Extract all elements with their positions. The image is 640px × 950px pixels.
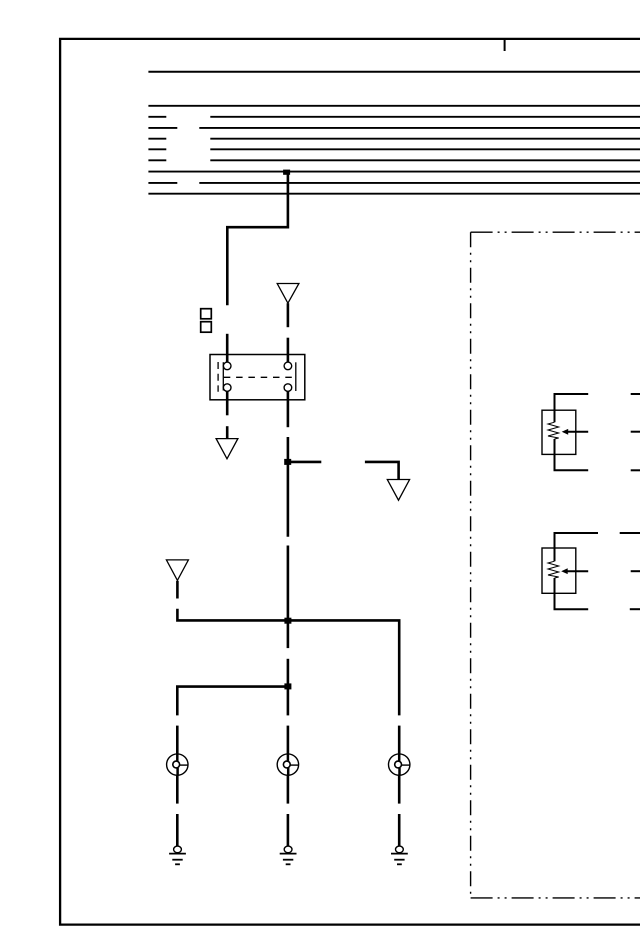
ground G1 [169, 846, 186, 864]
bus wire B8 left stub [148, 182, 177, 184]
branch wire to right (first segment) [288, 461, 321, 464]
connector arrow D (feed from another page) [166, 560, 188, 581]
bus wire B6 [210, 159, 640, 161]
wire segment to ground G1 [176, 814, 179, 846]
unit 2 middle wire right stub [631, 570, 640, 572]
bulb L3 [389, 754, 410, 775]
wire segment into relay right pin [287, 338, 290, 364]
lamp drop 3 upper segment [398, 726, 401, 755]
bus wire B3 [199, 127, 640, 129]
wire below bulb L1 [176, 775, 179, 803]
unit 2 middle wire [566, 570, 589, 572]
junction on rail 2 [284, 683, 291, 689]
unit 2 top wire right stub [620, 532, 640, 534]
wire below bulb L3 [398, 775, 401, 803]
center wire segment to rail 1 [287, 546, 290, 621]
bus wire B2 [210, 116, 640, 118]
wire out of relay left bottom pin [226, 391, 229, 416]
center wire below rail 1 [287, 623, 290, 648]
component group dash-dot boundary [471, 231, 640, 233]
component group boundary left edge [470, 232, 472, 898]
connector terminal box 2 [201, 322, 212, 333]
bus wire B4 left stub [148, 138, 166, 140]
bus wire B0 (single upper feed line) [148, 71, 640, 73]
lamp drop 2 upper segment [287, 726, 290, 755]
relay internal dashed horizontal link [224, 376, 293, 378]
wire from bus junction jogging down-left toward relay [227, 172, 288, 305]
unit 2 resistor zigzag [548, 561, 559, 578]
bus wire B3 left stub [148, 127, 177, 129]
bus wire B1 [148, 105, 640, 107]
unit 1 top wire right stub [631, 393, 640, 395]
bus wire B9 [148, 193, 640, 195]
unit 2 top wire [555, 533, 599, 561]
relay coil bar [295, 362, 297, 391]
branch wire second segment with corner down [365, 462, 399, 479]
wire segment above branch junction [287, 437, 290, 460]
unit 1 resistor zigzag [548, 422, 559, 439]
junction on bus wire B7 [283, 170, 290, 175]
unit 1 wiper arrow [562, 429, 569, 435]
wire segment to ground G2 [287, 814, 290, 846]
unit 1 bottom wire [555, 439, 589, 470]
wire segment to arrow B [226, 426, 229, 439]
bus wire B2 left stub [148, 116, 166, 118]
thermistor unit 1 case [542, 410, 576, 454]
connector arrow B (to another page) [216, 439, 238, 459]
relay internal dashed vertical [217, 362, 219, 392]
bus wire B5 [210, 148, 640, 150]
relay contact bar [222, 362, 224, 390]
bus wire B8 [199, 182, 640, 184]
center wire segment [287, 462, 290, 537]
unit 2 wiper arrow [561, 568, 568, 574]
lamp drop 1 upper segment [176, 726, 179, 755]
bus wire B6 left stub [148, 159, 166, 161]
relay pin circle bottom-left [223, 384, 231, 392]
wire segment to ground G3 [398, 814, 401, 846]
bulb L1 [167, 754, 188, 775]
component group boundary bottom edge [471, 897, 640, 899]
relay pin circle top-right [284, 362, 292, 370]
rail 1 with left upturn and right descent [177, 609, 399, 716]
relay case [210, 355, 305, 400]
bus wire B4 [210, 138, 640, 140]
junction at branch [284, 459, 291, 465]
ground G2 [280, 846, 297, 864]
unit 2 bottom wire [555, 578, 589, 609]
unit 1 middle wire right stub [631, 431, 640, 433]
bulb L2 [277, 754, 298, 775]
unit 1 top wire [555, 394, 589, 422]
junction on rail 1 [284, 618, 291, 624]
connector arrow C (to another page) [387, 480, 409, 501]
wire into relay left pin [226, 334, 229, 364]
unit 2 bottom wire right stub [630, 608, 640, 610]
rail 2 with left descent [177, 687, 288, 716]
relay pin circle bottom-right [284, 384, 292, 392]
wire out of relay right bottom pin [287, 391, 290, 427]
unit 1 bottom wire right stub [631, 469, 640, 471]
bus wire B5 left stub [148, 148, 166, 150]
ground G3 [391, 846, 408, 864]
connector terminal box 1 [201, 309, 212, 319]
relay pin circle top-left [223, 362, 231, 370]
border tick mark [504, 39, 506, 51]
thermistor unit 2 case [542, 548, 576, 593]
bus wire B7 [148, 171, 640, 173]
connector arrow A (feed from another page) [277, 284, 299, 304]
wire below arrow A [287, 303, 290, 327]
center wire segment into rail 2 [287, 659, 290, 687]
wire below bulb L2 [287, 775, 290, 803]
center wire below rail 2 [287, 688, 290, 715]
unit 1 middle wire [566, 431, 588, 433]
wire below arrow D [176, 581, 179, 599]
